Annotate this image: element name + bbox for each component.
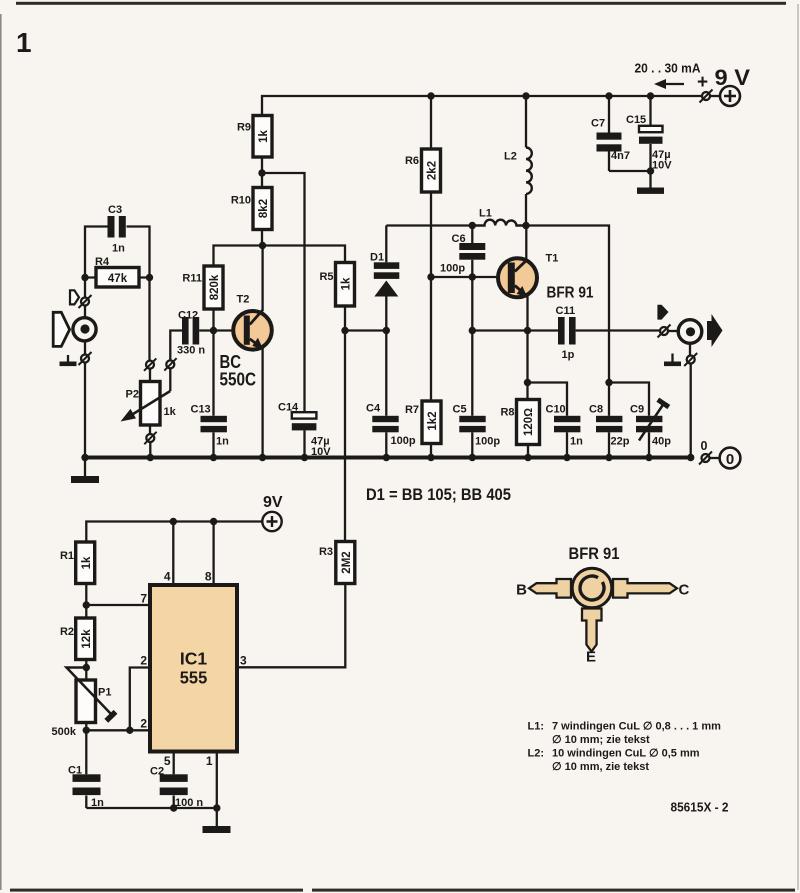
wire T1 emitter [526,296,528,383]
capacitor C1 [68,730,104,809]
wire junction to C14 [262,173,305,412]
ground rail [85,456,694,460]
wire C6 to C5 column [471,277,473,331]
svg-text:C15: C15 [626,114,646,126]
svg-text:C5: C5 [453,404,467,416]
plug connector output [658,325,671,338]
capacitor C5 [453,331,501,458]
svg-text:120Ω: 120Ω [523,408,535,436]
wire pin 3 to R3 [237,584,345,668]
node pin4 supply [170,518,177,525]
wire top supply rail [262,96,701,116]
plug connector output bottom [684,343,697,366]
node C6-base row [469,273,476,280]
node R2-P1-wiper [83,664,90,671]
svg-text:9V: 9V [263,494,283,511]
svg-text:C12: C12 [178,310,198,322]
svg-text:1: 1 [16,27,32,58]
plug connector input bottom [79,342,92,366]
wire plug to battery terminal [711,95,721,97]
potentiometer P2 [121,382,177,426]
resistor R7 [405,277,441,458]
node C6-L1 [469,222,476,229]
chassis ground at output jack [664,354,681,367]
wire emitter row B [472,329,558,331]
svg-text:∅ 10 mm; zie tekst: ∅ 10 mm; zie tekst [552,734,650,746]
svg-text:R4: R4 [95,256,110,268]
node P1 bottom [83,727,90,734]
svg-text:0: 0 [701,439,708,453]
svg-text:C: C [679,582,690,599]
node C7-C15 [647,167,654,174]
svg-text:R1: R1 [60,550,74,562]
note L2 winding [528,748,700,774]
terminal 9V lower + [262,512,281,531]
svg-text:8k2: 8k2 [258,199,270,218]
capacitor C10 [546,404,584,458]
svg-text:2M2: 2M2 [341,551,353,573]
svg-text:10V: 10V [652,160,672,172]
svg-text:C2: C2 [150,766,164,778]
transistor T1 [498,253,594,302]
wire varicap row A [345,329,386,331]
node rail C9 [645,454,652,461]
svg-text:4: 4 [164,570,171,584]
svg-text:C9: C9 [630,404,644,416]
capacitor C11 [556,305,660,361]
plug connector 0 terminal [699,452,712,465]
note L1 winding [528,721,722,747]
svg-text:R6: R6 [405,155,419,167]
svg-text:P2: P2 [126,389,139,401]
svg-text:7: 7 [140,592,147,606]
svg-text:1k: 1k [341,277,353,290]
trimmer capacitor C9 [630,400,671,458]
svg-text:C8: C8 [589,404,603,416]
node pin2 link [126,727,133,734]
wire 9V supply rail lower [86,522,262,543]
resistor R10 [231,188,272,230]
wire bottom ground row [86,807,217,809]
svg-text:500k: 500k [52,726,77,738]
inductor L2 [504,96,532,226]
svg-text:L2: L2 [504,151,517,163]
resistor R1 [60,542,95,584]
svg-text:R10: R10 [231,195,251,207]
resistor R3 [319,542,355,584]
node C3-R4 left [81,274,88,281]
capacitor C12 [177,310,234,357]
ground symbol 555 [203,808,231,833]
wire R2 to P1 [85,660,87,681]
svg-text:R11: R11 [182,273,202,285]
small output arrow [657,305,668,320]
node rail-R6 [427,92,434,99]
svg-text:12k: 12k [81,629,93,649]
node R9-R10 junction [258,169,265,176]
node rail-C7 [605,92,612,99]
node D1 anode [383,327,390,334]
node L1-L2-T1 collector [522,222,529,229]
node rail C8 [605,454,612,461]
node rail C14 [301,454,308,461]
svg-text:1k: 1k [164,406,177,418]
node rail input [81,454,88,461]
node rail output [687,454,694,461]
svg-text:1k: 1k [258,130,270,143]
capacitor C14 electrolytic [278,402,331,459]
svg-text:100p: 100p [391,435,416,447]
capacitor C2 [150,766,203,810]
plug connector above P2 [144,358,156,370]
svg-text:1p: 1p [562,349,575,361]
svg-text:T2: T2 [237,294,250,306]
svg-text:R8: R8 [500,407,514,419]
capacitor C6 [440,226,485,278]
node pin8 supply [210,518,217,525]
wire tank top D1 to C8 column [386,226,609,383]
plug connector input top [79,278,92,319]
IC op-amp timer IC1 555 [150,585,237,752]
svg-text:L2:: L2: [528,748,545,760]
svg-text:D1 = BB 105; BB 405: D1 = BB 105; BB 405 [366,486,511,504]
node C3-R4 right [146,274,153,281]
svg-text:7 windingen CuL ∅ 0,8 . . . 1: 7 windingen CuL ∅ 0,8 . . . 1 mm [552,721,721,733]
svg-text:D1: D1 [370,252,384,264]
small input arrow [70,290,79,304]
svg-text:R2: R2 [60,626,74,638]
battery terminal + [720,86,740,106]
node rail C5 [469,454,476,461]
node rail R7 [427,454,434,461]
svg-text:P1: P1 [98,687,111,699]
node rail R8 [524,454,531,461]
ground symbol main rail [71,458,99,484]
wire pin 2 lower [86,729,150,731]
resistor R5 [319,263,354,307]
node T2 base-R11-C13 [210,327,217,334]
svg-text:C13: C13 [191,404,211,416]
wire R10 to base rail [261,230,263,246]
varicap diode D1 [370,226,399,331]
svg-text:2: 2 [140,654,147,668]
wire plug to P2 [149,369,151,382]
svg-text:E: E [586,649,596,666]
svg-text:1k2: 1k2 [427,411,439,430]
wire T1 base row [431,276,500,278]
svg-text:L1:: L1: [528,721,545,733]
svg-text:330 n: 330 n [177,345,205,357]
svg-text:550C: 550C [220,370,257,390]
node emitter-R8-C10 [524,379,531,386]
input arrow big [53,312,69,346]
wire R4 node down to plug P2 [148,278,150,361]
resistor R8 [500,383,539,458]
wire pin 4 [172,522,174,586]
svg-text:R3: R3 [319,546,333,558]
svg-text:C3: C3 [108,204,122,216]
wire R6 to T1 base [430,192,432,277]
wire plug to 0 terminal [710,457,720,459]
wire output jack to ground rail [690,364,692,458]
wire R9 to R10 [261,157,263,188]
svg-text:100p: 100p [440,263,465,275]
svg-text:C1: C1 [68,765,82,777]
resistor R11 [182,266,223,331]
capacitor C3 [85,204,150,278]
wire T2 collector [261,246,263,312]
inductor L1 [472,208,526,226]
svg-text:C14: C14 [278,402,299,414]
trim potentiometer P1 [52,668,116,739]
svg-text:1k: 1k [81,556,93,569]
svg-text:10 windingen CuL ∅ 0,5 mm: 10 windingen CuL ∅ 0,5 mm [552,748,700,760]
plug connector below P2 [144,425,156,458]
node R10-T2 collector [259,242,266,249]
node rail C4 [383,454,390,461]
capacitor C13 [191,404,230,458]
svg-text:100p: 100p [475,436,500,448]
ground symbol below C15 [637,188,664,194]
node R6-T1 base [427,273,434,280]
svg-text:∅ 10 mm, zie tekst: ∅ 10 mm, zie tekst [552,761,649,773]
wire R11 top to R5 top [214,246,346,267]
wire pin 2 upper link [130,668,150,731]
wire P2 wiper to C12 plug [169,369,171,391]
svg-text:B: B [516,582,527,599]
transistor T2 [220,294,272,390]
capacitor C7 [591,96,630,171]
output jack [678,320,702,344]
wire plug to output jack [668,330,680,332]
svg-text:C7: C7 [591,118,605,130]
node pin1 ground [213,804,220,811]
svg-text:40p: 40p [652,436,671,448]
svg-text:IC1: IC1 [180,649,208,669]
svg-text:1n: 1n [112,243,125,255]
svg-text:C10: C10 [546,404,566,416]
wire T2 emitter to ground rail [261,349,263,458]
svg-text:5: 5 [164,754,171,768]
svg-text:C4: C4 [366,403,381,415]
node rail C10 [563,454,570,461]
node C2 ground [170,804,177,811]
wire emitter junction to C10 [528,383,568,416]
svg-text:1n: 1n [216,436,229,448]
svg-text:1: 1 [206,754,213,768]
svg-text:20 . . 30 mA: 20 . . 30 mA [635,62,701,76]
current arrow [654,79,684,89]
wire R1 to R2 [85,584,87,619]
resistor R6 [405,96,441,192]
terminal 0 [720,448,741,469]
wire D1 to C4 [385,331,387,416]
wire P1 to pin2 row [85,723,87,731]
plug connector supply [700,90,713,103]
node rail P2 [147,454,154,461]
svg-text:C11: C11 [556,305,576,317]
wire C7 C15 to ground [609,171,651,188]
svg-text:+: + [697,72,708,93]
node rail T2 emitter [259,454,266,461]
svg-text:0: 0 [726,451,734,468]
svg-text:555: 555 [180,668,208,688]
wire R5 bottom to R3 [344,306,346,542]
wire input jack to ground rail [84,363,86,458]
svg-text:1n: 1n [570,436,583,448]
wire pin 5 to C2 [173,752,175,775]
capacitor C8 [589,383,630,458]
svg-text:3: 3 [240,654,247,668]
node R1-R2-pin7 [83,601,90,608]
svg-text:R7: R7 [405,404,419,416]
node rail-C15 [647,92,654,99]
svg-text:BFR 91: BFR 91 [547,285,594,302]
capacitor C15 electrolytic [626,96,672,172]
resistor R9 [237,116,272,158]
svg-text:8: 8 [205,570,212,584]
input jack [73,318,96,341]
node C5 row [469,327,476,334]
svg-text:R5: R5 [319,271,333,283]
svg-text:47k: 47k [108,273,128,285]
wire pin 7 [86,604,150,606]
resistor R4 [85,256,150,287]
wire C13 column [212,331,214,416]
svg-text:L1: L1 [479,208,492,220]
svg-text:2: 2 [140,717,147,731]
svg-text:820k: 820k [209,274,221,300]
svg-text:T1: T1 [546,253,559,265]
node rail-L2 [522,92,529,99]
resistor R2 [60,618,95,660]
svg-text:C6: C6 [452,233,466,245]
node C8-C9 [605,379,612,386]
svg-text:R9: R9 [237,122,251,134]
node T1 emitter row [524,327,531,334]
plug connector C12-P2 [164,358,176,370]
svg-text:85615X - 2: 85615X - 2 [671,800,729,815]
svg-text:2k2: 2k2 [427,161,439,180]
svg-text:22p: 22p [611,436,630,448]
svg-text:BFR 91: BFR 91 [569,544,620,563]
output arrow big [707,314,723,347]
chassis ground at input jack [60,355,77,366]
node rail C13 [210,454,217,461]
wire T1 collector [525,226,527,260]
wire C8-C9 branch [609,383,649,416]
capacitor C4 [366,403,416,458]
wire pin 1 [216,752,218,809]
svg-text:4n7: 4n7 [611,150,630,162]
wire plug to C12 [170,331,182,361]
transistor package BFR 91 drawing [516,568,689,665]
wire pin 8 [212,522,214,586]
node R5-R3-varicap row [341,327,348,334]
